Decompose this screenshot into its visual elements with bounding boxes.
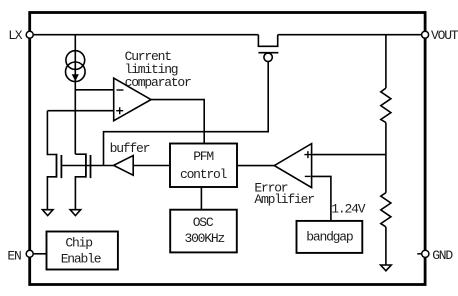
current source I1 lead from LX rail: [74, 35, 76, 155]
wire PFM to OSC: [200, 187, 202, 210]
svg-text:control: control: [180, 167, 228, 182]
wire EN to Chip Enable: [34, 253, 47, 255]
comparator plus sign: [116, 107, 123, 114]
svg-text:bandgap: bandgap: [306, 230, 353, 245]
svg-text:Chip: Chip: [65, 235, 92, 250]
svg-text:EN: EN: [7, 248, 21, 263]
block Chip Enable: [47, 232, 118, 270]
svg-text:PFM: PFM: [193, 149, 213, 164]
ground for Q1: [42, 210, 53, 216]
wire PMOS gate routing: [104, 62, 269, 166]
transistor Q2 source lead: [75, 177, 86, 210]
svg-text:OSC: OSC: [193, 215, 214, 230]
block bandgap: [297, 221, 363, 253]
transistor Q1 channel bar: [56, 154, 58, 178]
transistor Q2 (right NMOS) drain lead: [75, 153, 86, 155]
transistor Q1 (left NMOS) drain lead: [47, 111, 56, 155]
error amp minus sign: [305, 175, 311, 177]
wire LX rail left segment: [34, 34, 259, 36]
block OSC 300KHz: [170, 210, 237, 253]
terminal LX: [26, 31, 33, 38]
wire error amp minus input to bandgap: [312, 176, 331, 221]
resistor R1: [381, 88, 391, 123]
wire error amp plus input to divider tap: [312, 154, 386, 156]
comparator minus sign: [117, 89, 124, 91]
wire R1 to R2 (feedback node): [385, 123, 387, 193]
block PFM control: [170, 144, 237, 188]
svg-text:1.24V: 1.24V: [331, 201, 365, 216]
svg-text:buffer: buffer: [110, 141, 150, 156]
current source I1 arrowhead: [72, 74, 79, 81]
transistor Q2 channel bar: [85, 153, 87, 177]
error amp plus sign: [304, 151, 311, 158]
ground for Q2: [70, 210, 81, 216]
transistor Q2 gate bar: [90, 155, 92, 178]
svg-text:GND: GND: [432, 248, 453, 263]
terminal EN: [26, 250, 33, 257]
wire buffer input from PFM: [133, 165, 170, 167]
ground for divider: [381, 265, 392, 271]
wire comparator output: [151, 100, 204, 144]
svg-text:Enable: Enable: [61, 252, 101, 267]
wire R2 to ground: [385, 227, 387, 265]
buffer U2 triangle: [114, 156, 134, 176]
wire comparator plus input: [47, 110, 113, 112]
wire VOUT rail down to divider: [385, 35, 387, 88]
current source I1 bottom circle: [66, 62, 86, 82]
op-amp error amplifier U3: [274, 144, 311, 188]
wire comparator minus input: [75, 89, 113, 91]
wire gate line from buffer to NMOS gates: [61, 165, 113, 167]
transistor Q3 gate bar: [258, 52, 278, 54]
wire VOUT rail right segment: [278, 34, 422, 36]
transistor Q1 source lead: [47, 177, 56, 210]
svg-text:VOUT: VOUT: [431, 28, 458, 43]
terminal VOUT: [422, 31, 429, 38]
svg-text:LX: LX: [8, 28, 23, 43]
resistor R2: [381, 193, 391, 227]
svg-text:300KHz: 300KHz: [184, 231, 224, 246]
op-amp current limiting comparator: [114, 78, 151, 121]
svg-text:Amplifier: Amplifier: [254, 192, 314, 207]
transistor Q3 (PMOS) channel notch: [258, 35, 277, 47]
transistor Q3 gate bubble: [264, 53, 272, 61]
wire error amp output to PFM: [237, 165, 274, 167]
transistor Q1 gate bar: [60, 155, 62, 178]
wire GND stub: [417, 253, 421, 255]
current source I1 top circle: [66, 51, 85, 70]
terminal GND: [422, 250, 429, 257]
svg-text:comparator: comparator: [125, 75, 191, 90]
chip outline border: [30, 13, 425, 285]
